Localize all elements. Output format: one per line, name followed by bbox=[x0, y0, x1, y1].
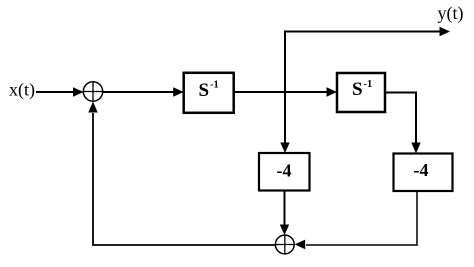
svg-text:-1: -1 bbox=[210, 79, 219, 90]
svg-text:S: S bbox=[352, 79, 363, 100]
svg-text:-4: -4 bbox=[414, 160, 429, 180]
svg-text:-1: -1 bbox=[364, 79, 373, 90]
svg-text:S: S bbox=[199, 80, 210, 101]
svg-text:y(t): y(t) bbox=[438, 3, 464, 24]
svg-text:x(t): x(t) bbox=[9, 79, 35, 100]
svg-text:-4: -4 bbox=[277, 161, 292, 181]
